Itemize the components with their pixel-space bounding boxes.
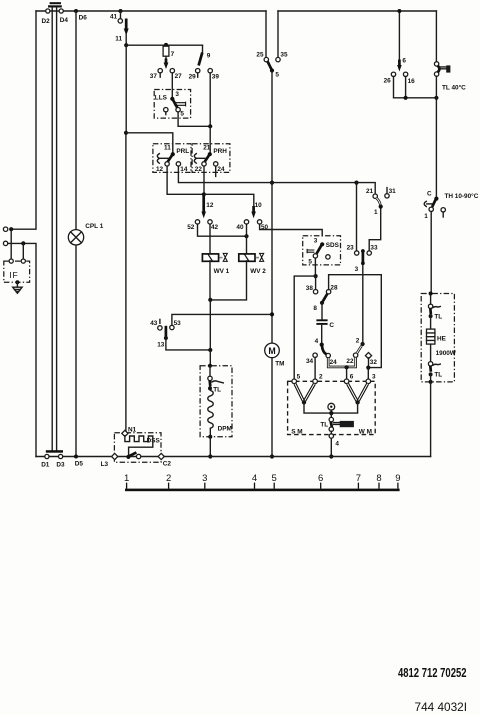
svg-text:D6: D6 (79, 15, 88, 22)
mains plug top caps (48, 2, 62, 7)
svg-text:S M: S M (291, 428, 302, 435)
wire: lamp column D6 to D5 (75, 11, 77, 457)
wire: motor 4 to bottom rail (330, 438, 332, 456)
switch 9 (199, 45, 211, 65)
motor terminal 5 (292, 374, 301, 384)
wire: top rail down to TL 40 (435, 11, 437, 62)
node: junction 32/28-wire (366, 366, 370, 370)
node: junction 12/22/cam12 (202, 192, 206, 196)
svg-text:4: 4 (315, 338, 319, 345)
fuse 7 (163, 45, 175, 58)
svg-text:D2: D2 (42, 18, 51, 25)
svg-text:4: 4 (335, 441, 339, 448)
timer cam 12 (201, 196, 213, 219)
mains plug bottom bar (46, 450, 63, 453)
svg-text:13: 13 (157, 342, 165, 349)
svg-text:8: 8 (313, 305, 317, 312)
node: IF bottom junction (15, 280, 19, 284)
wire: 40 down to WV2 (246, 224, 248, 254)
node: junction heater line / TL40 column (434, 96, 438, 100)
program scale bar (125, 489, 400, 492)
svg-text:32: 32 (370, 359, 378, 366)
svg-text:11: 11 (115, 36, 122, 43)
svg-text:1: 1 (424, 213, 428, 220)
wire: node down to terminal 3 (367, 368, 369, 380)
svg-text:D3: D3 (56, 461, 65, 468)
svg-text:4812 712 70252: 4812 712 70252 (398, 666, 467, 680)
drain pump motor DPM (200, 364, 232, 439)
node 2 (356, 337, 365, 346)
node: junction motor4 / bottom rail (329, 454, 333, 458)
node: junction above IF right (21, 241, 25, 245)
terminal 39 (208, 69, 219, 81)
svg-text:1: 1 (374, 209, 378, 216)
terminal 40 (236, 220, 248, 231)
svg-text:744 4032I: 744 4032I (415, 701, 468, 714)
terminal D1 (41, 454, 50, 468)
wire: 32 down to node (368, 358, 370, 368)
wire: WV2 down and left to join (210, 261, 246, 300)
terminal 24 (motor) (326, 353, 337, 366)
wire: PRL 12 to cam12 node (167, 166, 204, 194)
terminal 4 (motor bottom) (329, 434, 339, 448)
water valve WV 1 (202, 253, 229, 274)
wire: DPM to bottom rail (209, 437, 211, 457)
terminal C2 (diamond) (158, 453, 171, 467)
svg-text:N1: N1 (128, 426, 137, 433)
suds switch SDS box (303, 236, 341, 266)
level switch LLS (154, 90, 190, 119)
svg-text:SDS: SDS (326, 242, 340, 249)
pressure switch PRL box (153, 144, 191, 174)
svg-text:27: 27 (175, 73, 183, 80)
wire: LLS 5 to node 39/21 (178, 112, 210, 126)
svg-text:3: 3 (314, 237, 318, 244)
wire: rail 2 (126, 44, 202, 46)
svg-text:3: 3 (202, 473, 207, 484)
svg-text:5: 5 (275, 72, 279, 79)
svg-text:D1: D1 (41, 461, 50, 468)
svg-text:C2: C2 (163, 461, 172, 468)
svg-text:1: 1 (124, 473, 129, 484)
terminal 37 (150, 69, 163, 81)
wire: node to cam10 stub (204, 194, 254, 205)
svg-text:4: 4 (252, 473, 257, 484)
lamp CPL 1 (68, 223, 103, 245)
svg-text:3: 3 (175, 91, 179, 98)
door switch DSS box (114, 426, 161, 462)
terminal 21 (prog switch) (366, 188, 377, 198)
node: junction 39/5/21 (208, 124, 212, 128)
terminal: supply upper (3, 227, 7, 231)
wire: WV1 down to join (209, 261, 211, 300)
terminal L3 (diamond) (101, 453, 118, 467)
winding SM (V) (295, 384, 314, 405)
svg-text:12: 12 (206, 202, 214, 209)
motor terminal 3 (366, 374, 376, 384)
svg-text:38: 38 (306, 285, 314, 292)
motor lever 4-24 (322, 345, 327, 355)
wire: 26 to heater feed line (394, 77, 437, 98)
terminal 29 (189, 69, 200, 81)
node: cam 11 output on rail 2 (124, 43, 128, 47)
svg-text:D5: D5 (75, 460, 84, 467)
wire: bottom rail (36, 456, 431, 458)
svg-text:LLS: LLS (155, 95, 168, 102)
terminal D2 (42, 9, 51, 25)
motor unit SM/WM box (288, 381, 376, 435)
motor terminal 6 (344, 374, 353, 384)
wire: bracket to motor terminal 6 (346, 367, 348, 379)
svg-text:37: 37 (150, 73, 158, 80)
svg-text:35: 35 (280, 52, 288, 59)
svg-text:7: 7 (171, 51, 175, 58)
terminal D4 (59, 9, 68, 24)
terminal 31 (385, 188, 396, 198)
capacitor C (316, 320, 334, 329)
svg-text:39: 39 (212, 74, 220, 81)
motor terminal 2 (313, 374, 323, 384)
svg-text:14: 14 (180, 166, 188, 173)
node: junction SDS/38/SM-5 (314, 274, 318, 278)
wire: IF left lead (10, 229, 12, 259)
wire: left loop from top rail down to supply terminals (11, 11, 36, 229)
svg-text:TL: TL (434, 372, 442, 379)
scale ticks (127, 483, 398, 489)
svg-text:22: 22 (195, 166, 203, 173)
svg-text:28: 28 (330, 284, 338, 291)
svg-text:C: C (329, 322, 334, 329)
ground (13, 282, 22, 293)
svg-text:5: 5 (297, 374, 301, 381)
svg-text:TL: TL (434, 314, 442, 321)
svg-text:34: 34 (306, 358, 314, 365)
node: branch to PRL 11 (124, 131, 128, 135)
svg-text:WV 1: WV 1 (214, 268, 230, 275)
node D6 junction (74, 9, 87, 22)
terminal 27 (170, 69, 182, 81)
node: fuse top junction (164, 43, 168, 47)
wire: PRH 22 down (203, 166, 205, 194)
motor lever 22-2 (double line) (357, 346, 362, 354)
svg-text:5: 5 (308, 259, 312, 266)
wire: top rail left segment (36, 10, 266, 12)
terminal 26 (384, 72, 396, 84)
wire: 39 down (209, 73, 211, 126)
svg-text:CPL 1: CPL 1 (85, 223, 103, 230)
svg-text:10: 10 (255, 202, 263, 209)
terminal 23 (347, 244, 359, 255)
svg-text:TM: TM (275, 360, 284, 367)
node: rail junction above 41 (119, 9, 123, 13)
scale numbers (124, 473, 401, 484)
svg-text:23: 23 (347, 244, 355, 251)
resistor meander DSS (125, 436, 153, 456)
svg-text:2: 2 (319, 374, 323, 381)
svg-text:TL: TL (213, 387, 221, 394)
svg-text:WV 2: WV 2 (250, 268, 266, 275)
thermostat TH 10-90°C (424, 191, 478, 221)
terminal: supply lower (3, 241, 7, 245)
svg-text:PRH: PRH (213, 148, 227, 155)
node: WV join (208, 298, 212, 302)
timer cam 6 (397, 9, 406, 72)
svg-text:PRL: PRL (176, 148, 189, 155)
wire: PRL 14 long line to switch 21 (178, 166, 375, 194)
wire: heater to bottom rail (430, 382, 432, 457)
terminal 52 (187, 220, 200, 231)
wire: 34 down to motor terminal 2 (314, 357, 316, 379)
timer cam 13 (150, 319, 181, 348)
node: junction DPM / bottom rail (208, 454, 212, 458)
interference filter IF box (4, 259, 30, 282)
svg-text:L3: L3 (101, 461, 109, 468)
node: junction 14-line / 23 column (354, 181, 358, 185)
terminal 41 (110, 11, 123, 23)
wire: 27 down to LLS (171, 73, 173, 99)
wire: 28 up and right to motor terminal 3 (329, 275, 382, 368)
svg-text:W M: W M (359, 428, 372, 435)
svg-text:TL: TL (320, 422, 328, 429)
wire: node left and down to motor terminal 5 (294, 276, 315, 379)
svg-text:5: 5 (272, 473, 277, 484)
svg-text:M: M (268, 346, 275, 356)
wire: node down to PRH 21 (209, 126, 211, 154)
wire: long left column from rail2 to N1 (125, 45, 127, 433)
winding WM (V) (348, 384, 368, 405)
svg-text:7: 7 (356, 473, 361, 484)
node: junction above IF left (9, 227, 13, 231)
wire: cam13 out to DPM column (166, 338, 210, 350)
svg-text:21: 21 (203, 145, 211, 152)
svg-text:40: 40 (236, 224, 244, 231)
wire: lower supply wire to left loop (8, 243, 36, 456)
wire: 33 up to switch 1 (369, 208, 381, 251)
node: junction 14-line / motor column (270, 181, 274, 185)
wire: 52 to WV2 column (198, 224, 247, 236)
node: motor star point (329, 411, 333, 415)
svg-text:IF: IF (9, 270, 19, 280)
wire: branch to PRL 11 (126, 133, 173, 154)
svg-text:1900W: 1900W (436, 350, 457, 357)
wire: 42 down to WV1 (209, 224, 211, 254)
terminal D3 (56, 454, 65, 468)
terminal 32 (diamond) (365, 352, 377, 366)
svg-text:43: 43 (150, 320, 158, 327)
svg-text:21: 21 (366, 188, 374, 195)
svg-text:2: 2 (166, 473, 171, 484)
svg-text:6: 6 (350, 374, 354, 381)
svg-text:2: 2 (356, 337, 360, 344)
wire: mains cord right conductor (56, 8, 58, 451)
svg-text:6: 6 (402, 58, 406, 65)
svg-text:C: C (427, 191, 432, 198)
terminal 38 (306, 276, 318, 294)
timer cam 3 (355, 249, 365, 273)
terminal 28 (326, 284, 338, 294)
wire: motor M down to bottom rail (271, 358, 273, 457)
wire: motor column top (cam5 out to motor M) (271, 71, 273, 344)
node 4 (315, 338, 324, 347)
node: junction 16/heater line (404, 96, 408, 100)
node: junction 53-line / motor column (270, 312, 274, 316)
svg-text:25: 25 (256, 52, 264, 59)
svg-text:5: 5 (180, 110, 184, 117)
svg-text:8: 8 (376, 473, 381, 484)
motor switch 8 (313, 294, 327, 312)
wire: capacitor down to node 4 (321, 325, 323, 345)
water valve WV 2 (239, 253, 266, 274)
svg-text:41: 41 (110, 14, 118, 21)
svg-text:11: 11 (164, 145, 171, 152)
terminal N1 (diamond) (122, 430, 128, 436)
wire: SDS 5 down to node 38 (314, 258, 316, 276)
svg-text:16: 16 (408, 78, 416, 85)
svg-text:TH 10-90°C: TH 10-90°C (445, 192, 479, 200)
timer cam 7 lever (164, 59, 169, 70)
svg-text:24: 24 (217, 166, 225, 173)
switch 5/25/35 (256, 11, 288, 79)
wire: TL out through box edge (330, 431, 332, 433)
switch 1 lever (double line) (374, 198, 383, 216)
svg-text:DPM: DPM (218, 426, 232, 433)
wire: 23 up to 14-line (356, 183, 358, 251)
svg-text:9: 9 (395, 473, 400, 484)
terminal 33 (367, 244, 378, 255)
svg-text:HE: HE (437, 335, 447, 342)
svg-text:29: 29 (189, 74, 197, 81)
svg-text:12: 12 (156, 166, 164, 173)
wire: mains cord left conductor (51, 8, 53, 451)
svg-text:6: 6 (318, 473, 323, 484)
terminal 16 (403, 72, 415, 85)
timer cam 11 (115, 19, 128, 45)
bracket 24-22 (double line) (328, 357, 355, 369)
thermostat TL 40°C (434, 62, 466, 92)
wire: TL40 down to TH (435, 76, 437, 198)
svg-text:9: 9 (207, 53, 211, 60)
door switch lever (126, 452, 141, 459)
node: junction 52/40 (244, 234, 248, 238)
wire: WV join down to DPM (209, 300, 211, 366)
svg-text:3: 3 (372, 374, 376, 381)
terminal 22 (motor) (346, 353, 357, 365)
terminal 42 (208, 220, 219, 231)
heater HE box (421, 292, 457, 384)
wire: 53 up and right to motor column (172, 314, 272, 325)
node D5 junction (74, 455, 83, 468)
svg-text:52: 52 (187, 224, 195, 231)
motor thermal cutout TL (320, 413, 354, 431)
tacho generator (small circle) (328, 403, 335, 413)
svg-text:26: 26 (384, 78, 392, 85)
svg-text:22: 22 (346, 358, 354, 365)
svg-text:33: 33 (370, 244, 378, 251)
terminal 34 (306, 353, 317, 365)
node: junction M / bottom rail (270, 454, 274, 458)
timer cam 10 (251, 202, 262, 218)
wire: 50 to SDS feed (260, 224, 323, 236)
terminal 50 (257, 220, 268, 231)
node: junction cam13 / DPM column (208, 348, 212, 352)
svg-text:D4: D4 (60, 17, 69, 24)
wire: winding vertices to center (304, 402, 358, 413)
wire: top rail right segment (278, 10, 436, 12)
svg-text:3: 3 (355, 266, 359, 273)
wire: TH to heater box (430, 212, 432, 294)
svg-text:42: 42 (211, 224, 219, 231)
motor M / TM (265, 343, 285, 367)
svg-text:TL 40°C: TL 40°C (442, 84, 466, 92)
wire: IF right lead (22, 243, 24, 259)
svg-text:53: 53 (174, 320, 182, 327)
wire: 16 stub down (405, 77, 407, 98)
pressure switch PRH box (192, 144, 230, 177)
wire: 8 down to capacitor (321, 303, 323, 320)
svg-text:31: 31 (389, 188, 397, 195)
wire: node 2 up to cam 3 (362, 265, 364, 344)
svg-text:24: 24 (330, 359, 338, 366)
